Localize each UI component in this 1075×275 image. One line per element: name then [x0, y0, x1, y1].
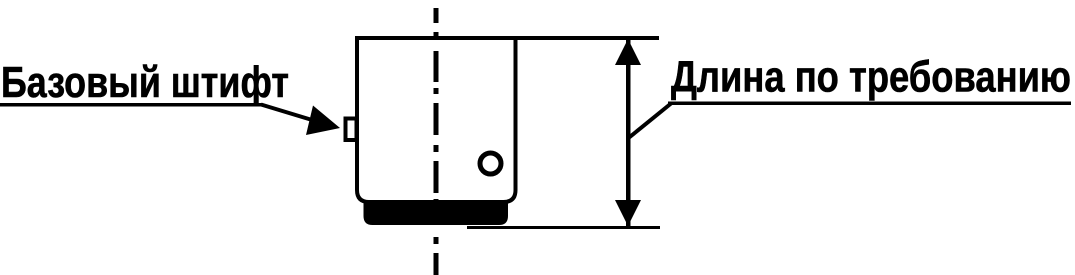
top line: body top edge + extension line to dimension	[355, 36, 659, 40]
right label underline	[668, 102, 1071, 106]
right leader diagonal	[629, 104, 672, 139]
dimension arrowhead down	[615, 200, 641, 226]
left leader arrowhead	[306, 106, 340, 136]
base pin (small rectangle on left side)	[346, 119, 357, 141]
svg-text:Базовый штифт: Базовый штифт	[1, 58, 289, 107]
centerline (dash-dot)	[434, 8, 439, 275]
small circle on body	[480, 153, 501, 174]
svg-text:Длина по требованию: Длина по требованию	[671, 53, 1071, 102]
left label underline	[0, 103, 262, 107]
left leader diagonal	[261, 105, 322, 124]
bottom extension line	[467, 226, 660, 229]
black base skirt bar	[364, 203, 509, 225]
dimension line (vertical)	[626, 40, 631, 226]
dimension arrowhead up	[615, 39, 641, 65]
lamp body outline	[357, 38, 516, 202]
